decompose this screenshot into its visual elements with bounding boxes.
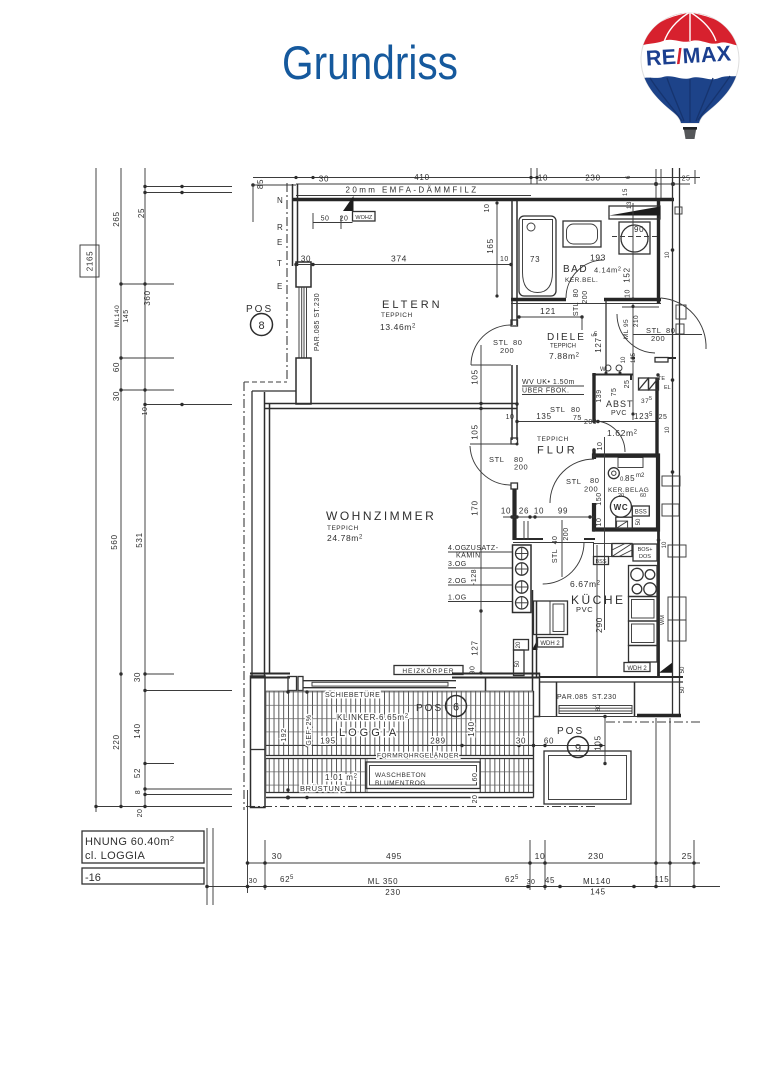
svg-text:15: 15 [623,188,629,196]
loggia bottom parapet lines [266,793,534,798]
BOS DOS sink box [633,544,657,561]
svg-text:37: 37 [641,398,649,405]
kitchen small boxes 20-50 [514,640,529,676]
vertical ETERN wall text [277,196,283,291]
black triangle top WOHZ [343,196,354,211]
svg-text:DOS: DOS [639,554,651,560]
bath bottom wall left segment [511,298,566,301]
blue bottom section [635,73,745,140]
dim line POS9 vertical [604,717,606,764]
svg-text:EL: EL [664,385,671,391]
svg-text:150: 150 [596,492,603,505]
wall step lines at Wohnzimmer NW corner [252,391,296,676]
washbasin bath [563,221,601,247]
bottom wall thin line under loggia-kitchen [533,716,637,718]
blue gore seams [650,76,730,122]
svg-text:25: 25 [659,414,668,421]
left wall pillar lower [296,358,311,404]
svg-text:105: 105 [594,735,603,750]
door label STL Eltern [493,338,523,355]
svg-text:1.01 m2: 1.01 m2 [325,773,358,782]
svg-text:6: 6 [626,175,632,179]
svg-text:50: 50 [680,666,686,673]
top insulation band [296,184,690,196]
svg-text:LOGGIA: LOGGIA [339,727,399,739]
top dimension line [253,177,700,179]
svg-text:25: 25 [624,380,631,389]
boundary dash-dot bottom right [606,721,702,723]
svg-text:DIELE: DIELE [547,332,586,343]
loggia right wall column [533,674,540,717]
svg-text:10: 10 [142,407,149,416]
svg-text:WM: WM [660,615,666,625]
svg-text:60: 60 [472,773,479,782]
svg-text:6: 6 [453,702,459,714]
svg-text:9: 9 [575,743,581,755]
svg-text:145: 145 [590,888,605,897]
kitchen small box left [594,544,612,557]
washer niche top hatched wedge [609,206,660,219]
left outer wall double [293,184,298,266]
WC room walls [594,456,658,530]
svg-text:192: 192 [281,728,288,741]
corridor stub below bath [622,306,659,308]
svg-text:ABST: ABST [606,399,634,409]
svg-text:30: 30 [249,878,258,885]
BSS box in WC [632,506,649,516]
top left 85 leader [253,179,296,222]
room label WC [608,473,649,512]
svg-text:1.62m2: 1.62m2 [607,428,638,438]
corridor dots [592,305,659,416]
loggia parapet hatch left [266,759,367,793]
diele dim 121 [517,306,584,330]
top dim node dots [251,176,675,187]
svg-text:0.: 0. [620,477,625,483]
POS 6 marker [416,696,467,717]
wc dim line vertical [596,437,646,630]
door Kueche arc [543,543,584,585]
svg-text:TEPPICH: TEPPICH [327,525,359,532]
svg-text:STL: STL [573,302,580,316]
loggia labels [281,691,603,803]
kueche dim 290 rotated [594,545,604,677]
room label WOHNZIMMER [326,509,436,543]
svg-text:20: 20 [516,641,522,648]
svg-text:KAMIN: KAMIN [456,553,481,560]
svg-text:Grundriss: Grundriss [282,36,458,89]
svg-text:62: 62 [280,875,290,884]
svg-text:ELTERN: ELTERN [382,299,443,311]
bath dim 152 vertical [623,203,635,301]
svg-text:289: 289 [430,737,445,746]
svg-text:E: E [277,282,282,291]
ABST top shaft squares [639,378,659,390]
svg-text:200: 200 [582,290,589,303]
loggia dim dots [286,690,607,799]
door label STL Flur [489,455,528,472]
corridor dim vline [632,303,634,420]
svg-text:PVC: PVC [576,605,593,614]
Eltern width dim line 374 [294,254,512,267]
svg-text:POS: POS [416,703,443,714]
red gore seams [644,12,736,42]
Wohnzimmer bottom wall left segment [250,674,290,678]
door post Flur door top [511,438,518,444]
boundary dash-dot bottom [246,806,598,808]
svg-text:45: 45 [545,876,555,885]
kitchen right wall [657,530,660,677]
top dim tick verticals [531,168,695,199]
flower trough right [544,751,631,804]
svg-text:ML140: ML140 [114,305,121,327]
diele dim 127-5 rotated [592,333,603,353]
svg-text:PAR.085 ST.230: PAR.085 ST.230 [314,293,321,351]
svg-text:127: 127 [471,640,480,655]
svg-text:495: 495 [386,851,402,861]
loggia left wall notch [251,749,266,751]
svg-text:85: 85 [256,179,265,189]
abst dims rotated [596,380,631,451]
bottom-left label box 1 [82,831,204,863]
bottom right thick wall stub [637,714,681,717]
svg-text:STL: STL [489,455,505,464]
balloon envelope [641,13,739,123]
svg-text:10: 10 [535,851,546,861]
svg-text:531: 531 [135,532,144,547]
kitchen counter right 1 [629,597,658,622]
chimney block with flues [513,545,532,613]
svg-text:STL: STL [552,549,559,563]
WDH2 box kitchen bottom [624,663,650,672]
svg-text:50: 50 [680,686,686,693]
svg-text:WDH 2: WDH 2 [627,666,647,672]
svg-text:30: 30 [319,175,329,184]
svg-text:50: 50 [636,518,642,525]
room label ELTERN [380,299,443,332]
svg-text:13: 13 [627,201,633,209]
svg-text:374: 374 [391,254,407,264]
right side rotated tiny dims [662,251,686,693]
svg-text:290: 290 [594,617,604,633]
kitchen top wall right segment [584,538,595,540]
bottom dim line lower [205,875,720,897]
svg-text:BLUMENTROG: BLUMENTROG [375,780,426,787]
kitchen bottom window band PAR.085 [559,706,632,714]
svg-text:6.67m2: 6.67m2 [570,579,601,589]
svg-text:HNUNG 60.40m2: HNUNG 60.40m2 [85,834,174,848]
svg-text:200: 200 [651,334,665,343]
50-20 dim bracket [313,213,353,229]
door label STL Bad rotated [573,289,589,317]
svg-text:2.OG: 2.OG [448,578,467,585]
svg-text:10: 10 [501,507,511,516]
bathtub [519,216,556,296]
svg-text:ÜBER FBOK.: ÜBER FBOK. [522,387,569,395]
svg-text:4.14m2: 4.14m2 [594,266,622,275]
svg-text:85: 85 [625,474,635,483]
svg-text:105: 105 [471,369,480,384]
loggia NE step wall [486,677,534,692]
room label FLUR [537,436,578,457]
svg-text:10: 10 [484,204,491,213]
svg-text:SCHIEBETÜRE: SCHIEBETÜRE [325,691,380,699]
Eltern height dim 165 [484,201,509,297]
svg-text:ML140: ML140 [583,877,611,886]
door Flur leaf+arc [470,444,511,485]
sliding door posts [288,677,303,691]
svg-text:STL: STL [566,477,582,486]
loggia dim line [266,745,605,747]
svg-text:WOHZ: WOHZ [355,215,372,221]
svg-text:210: 210 [633,315,640,327]
svg-text:20mm EMFA-DÄMMFILZ: 20mm EMFA-DÄMMFILZ [346,186,479,195]
bottom dim line upper [246,851,700,865]
svg-text:10: 10 [500,256,509,263]
WV note [522,379,584,395]
door ABST arc [594,421,625,452]
svg-text:20: 20 [472,795,479,804]
stove with 4 burners [629,566,658,597]
svg-text:30: 30 [272,851,283,861]
svg-text:R: R [277,223,283,232]
svg-text:30: 30 [527,879,536,886]
svg-text:2165: 2165 [86,251,95,272]
svg-text:140: 140 [133,723,142,738]
door label STL stairwell [646,326,676,343]
svg-text:560: 560 [110,534,119,549]
loggia left wall column [251,676,266,808]
svg-text:265: 265 [112,211,121,226]
svg-text:80: 80 [513,338,523,347]
svg-text:10: 10 [596,518,603,527]
svg-text:25: 25 [137,208,146,218]
svg-text:121: 121 [540,306,556,316]
door label STL Kueche rotated [552,520,570,577]
svg-text:WASCHBETON: WASCHBETON [375,772,426,779]
svg-text:230: 230 [385,888,400,897]
svg-text:165: 165 [486,238,495,253]
loggia tiled floor upper [266,691,534,756]
svg-text:200: 200 [563,527,570,540]
svg-text:115: 115 [655,875,670,884]
kitchen counter lower-left block [534,601,568,635]
svg-text:GEF. 2%: GEF. 2% [306,714,313,745]
bath right wall [657,200,660,303]
RE/MAX balloon logo [635,8,745,140]
svg-text:139: 139 [596,389,603,402]
svg-text:20: 20 [340,216,349,223]
svg-text:230: 230 [588,851,604,861]
bottom-left label box 2 [82,868,204,884]
svg-text:60: 60 [640,493,646,499]
door post Flur door bottom [511,483,518,489]
kitchen hatched box [612,544,632,557]
balloon nozzle [684,127,697,139]
svg-text:127: 127 [594,337,603,352]
kitchen counter right 2 [629,621,658,646]
ABST right wall [655,378,658,455]
flower trough Waschbeton [366,762,480,789]
kitchen window posts [557,682,635,716]
svg-text:60: 60 [544,737,554,746]
svg-text:62: 62 [505,875,515,884]
boxed label 2165 [80,245,99,277]
svg-text:13.46m2: 13.46m2 [380,322,416,332]
neighbour boxes right edge [662,207,686,641]
WC small hatched box [617,521,628,528]
svg-text:20: 20 [618,493,624,499]
corridor corner wall [593,375,633,381]
svg-text:200: 200 [584,485,598,494]
svg-text:TEPPICH: TEPPICH [381,312,413,319]
svg-text:8: 8 [258,320,264,332]
door WC arc [550,459,594,503]
svg-text:WOHNZIMMER: WOHNZIMMER [326,509,436,523]
top dim labels [319,173,691,209]
svg-text:25: 25 [682,851,693,861]
ABST shelf rect [618,458,643,468]
left chain node dots [94,185,183,808]
svg-text:220: 220 [112,734,121,749]
svg-text:30: 30 [133,672,142,682]
svg-text:80: 80 [573,289,580,298]
top outer wall [292,198,674,201]
wall Eltern/Bad vertical (upper) [512,200,517,325]
black triangle bottom right [659,663,672,673]
svg-text:80: 80 [666,326,676,335]
door stairwell arc [661,298,706,349]
Wohnzimmer bottom wall right segment [452,674,540,678]
boundary step dashed [244,381,287,383]
svg-text:135: 135 [536,412,551,421]
loggia right edge line [533,691,535,798]
WV symbols small circles [600,365,622,373]
svg-text:BAD: BAD [563,264,588,275]
door Bad arc [566,260,604,298]
svg-text:TE: TE [658,376,665,382]
svg-text:8: 8 [135,790,142,794]
svg-text:TEPPICH: TEPPICH [550,344,576,350]
svg-text:T: T [277,259,282,268]
left window PAR.085 [299,287,307,358]
svg-text:200: 200 [514,463,528,472]
svg-text:10: 10 [506,414,515,421]
red top section [635,8,745,49]
svg-text:WC: WC [614,503,629,512]
svg-text:145: 145 [123,309,130,322]
svg-text:BSS: BSS [635,510,647,516]
bottom dim extension verticals [248,718,695,893]
svg-text:152: 152 [623,267,632,282]
svg-text:FORMROHRGELÄNDER: FORMROHRGELÄNDER [377,752,459,760]
left chain rotated dimension labels [110,208,152,818]
stairwell corridor left line [605,300,607,373]
flur dim line 135 etc [506,412,668,423]
door label STL WC [566,476,600,494]
svg-text:193: 193 [590,253,606,263]
svg-text:cl. LOGGIA: cl. LOGGIA [85,850,145,862]
svg-text:30: 30 [516,737,526,746]
door post Eltern door top [511,320,518,326]
svg-text:7.88m2: 7.88m2 [549,351,580,361]
svg-text:73: 73 [530,255,540,264]
svg-text:50: 50 [321,216,330,223]
svg-text:m2: m2 [636,473,645,479]
svg-text:10: 10 [621,356,627,363]
washing machine 90 [612,222,660,254]
outer right wall line B [679,168,681,716]
Heizkoerper radiator [394,666,463,675]
svg-text:200: 200 [500,346,514,355]
svg-text:90: 90 [470,666,477,675]
left dimension chain stubs [96,187,232,807]
WDH2 box kitchen left [538,638,564,648]
boundary dash-dot left lower [243,382,245,810]
svg-text:TEPPICH: TEPPICH [537,436,569,443]
Wohnzimmer left wall double [265,392,270,676]
kitchen top wall thin inner line [513,542,594,544]
svg-text:105: 105 [471,424,480,439]
svg-text:25: 25 [682,176,691,183]
black wedge kitchen left [532,640,538,651]
svg-text:360: 360 [143,290,152,305]
svg-text:75: 75 [573,415,582,422]
svg-text:195: 195 [320,737,335,746]
svg-text:ML 350: ML 350 [368,877,399,886]
room label DIELE [547,332,598,361]
svg-text:10: 10 [662,541,668,548]
svg-text:1.OG: 1.OG [448,595,467,602]
svg-text:50: 50 [515,660,521,667]
chimney labels OG [448,545,512,602]
property boundary dash-dot left upper [286,183,288,381]
svg-text:POS: POS [557,726,584,737]
svg-text:20: 20 [137,809,144,818]
bath bottom wall thin line [511,303,661,305]
svg-text:80: 80 [571,405,581,414]
svg-text:10: 10 [597,442,604,451]
svg-text:10: 10 [665,251,671,258]
bath bottom wall right segment [604,298,661,301]
svg-text:PVC: PVC [611,410,627,417]
svg-text:30: 30 [112,391,121,401]
chimney top wall [513,538,543,540]
svg-text:10: 10 [534,507,544,516]
ABST left wall [592,373,595,456]
svg-text:410: 410 [414,173,429,182]
small labels TEL EL [658,376,671,625]
bottom box connector lines [207,828,213,905]
svg-text:140: 140 [467,721,476,736]
svg-text:ST.230: ST.230 [592,694,617,701]
WC door gap whiteout [590,459,598,503]
svg-text:4.OG: 4.OG [448,545,467,552]
svg-text:170: 170 [471,500,480,515]
room label BAD [563,264,622,284]
svg-text:10: 10 [665,426,671,433]
svg-text:26: 26 [519,507,529,516]
door Diele-corridor arc [617,314,655,353]
svg-text:10: 10 [538,174,548,183]
sliding door track [303,681,456,688]
corridor door label line [633,334,702,336]
WOHZ box [353,212,376,222]
wall Flur/Kueche left vertical thick [512,489,516,540]
svg-text:KLINKER 6.65m2: KLINKER 6.65m2 [337,713,409,722]
wall below chimney [533,590,537,677]
svg-text:ML 95: ML 95 [623,319,630,339]
